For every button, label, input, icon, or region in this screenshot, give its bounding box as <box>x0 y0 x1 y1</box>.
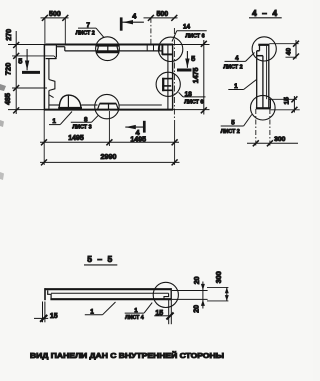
left dimension chain line <box>12 31 47 114</box>
detail circle bottom of 4-4 <box>250 95 275 120</box>
svg-text:4 – 4: 4 – 4 <box>252 8 279 18</box>
svg-text:1: 1 <box>90 308 94 315</box>
panel inner bottom line <box>49 104 162 106</box>
label 7 / sheet 2 <box>78 28 104 37</box>
svg-text:5 – 5: 5 – 5 <box>87 254 114 264</box>
detail circle 14-6 <box>158 37 182 61</box>
dimension 500 top-left <box>41 15 69 46</box>
5-5 left end face <box>44 288 46 300</box>
panel left outer edge <box>43 45 45 110</box>
svg-text:ЛИСТ 3: ЛИСТ 3 <box>72 124 91 130</box>
detail circle (5-5) <box>153 282 178 307</box>
svg-text:7: 7 <box>86 22 90 29</box>
bottom dimension line 1495+1495 <box>40 111 179 146</box>
5-5 strip inner line <box>51 292 169 294</box>
section marker 4 top <box>121 17 144 30</box>
5-5 strip top face <box>44 288 171 290</box>
5-5 right end notch <box>164 293 169 299</box>
svg-text:1495: 1495 <box>130 136 146 143</box>
section marker 5 left <box>22 49 40 72</box>
label 1 / sheet 4 (5-5) <box>125 303 153 314</box>
svg-text:1: 1 <box>52 118 56 125</box>
svg-text:ВИД ПАНЕЛИ ДАН С ВНУТРЕННЕЙ СТ: ВИД ПАНЕЛИ ДАН С ВНУТРЕННЕЙ СТОРОНЫ <box>30 351 224 360</box>
dimension 300 (4-4) <box>247 109 298 146</box>
svg-text:5: 5 <box>18 57 22 66</box>
detail circle top of 4-4 <box>252 37 276 61</box>
joint box top right <box>162 45 172 55</box>
top-left corner step profile <box>46 45 65 59</box>
label 5 / sheet 2 (4-4) <box>221 115 252 127</box>
svg-text:15: 15 <box>155 310 163 317</box>
panel right outer edge <box>172 45 174 110</box>
dimension 15 (4-4) <box>270 96 299 113</box>
dimension 20 20 (5-5) <box>201 282 205 309</box>
svg-text:270: 270 <box>6 29 13 41</box>
label 4 / sheet 2 (4-4) <box>225 53 255 62</box>
svg-text:5: 5 <box>231 119 235 126</box>
joint centerline <box>173 28 175 120</box>
5-5 left hook <box>48 290 51 299</box>
label 1 plan <box>49 112 72 125</box>
svg-text:4: 4 <box>235 55 239 62</box>
svg-text:485: 485 <box>5 93 12 105</box>
svg-text:ЛИСТ 2: ЛИСТ 2 <box>221 129 240 135</box>
lifting loop arch <box>58 95 82 108</box>
dimension 40 <box>269 40 299 60</box>
svg-text:15: 15 <box>284 97 291 105</box>
label 18 / sheet 6 <box>179 92 206 97</box>
connector bracket inside circle <box>162 78 172 91</box>
svg-text:8: 8 <box>84 116 88 123</box>
section marker 4 bottom <box>125 121 144 133</box>
section marker 5 right <box>177 51 192 70</box>
svg-text:720: 720 <box>3 63 12 76</box>
svg-text:15: 15 <box>50 313 58 320</box>
right edge extension down to dims <box>174 120 176 165</box>
scan smudge left edge <box>0 84 6 91</box>
svg-text:300: 300 <box>214 271 223 283</box>
detail circle 7-2 <box>96 37 120 61</box>
section 4-4 profile <box>256 44 271 109</box>
svg-text:500: 500 <box>49 11 61 18</box>
svg-text:20: 20 <box>194 276 201 284</box>
dimension 300 (5-5) <box>207 287 229 301</box>
panel bottom edge <box>8 109 210 111</box>
svg-text:ЛИСТ 2: ЛИСТ 2 <box>223 65 242 71</box>
svg-text:500: 500 <box>156 11 168 18</box>
scan smudge left edge 3 <box>0 172 4 180</box>
5-5 right end face <box>170 288 172 300</box>
loop recess detail (in circle 8) <box>98 104 119 110</box>
dimension 15 right (5-5) <box>154 300 173 324</box>
detail circle 18-6 <box>156 72 180 96</box>
label 14 / sheet 6 <box>172 31 207 42</box>
svg-text:4: 4 <box>132 11 137 20</box>
scan smudge left edge 2 <box>0 120 4 127</box>
svg-text:300: 300 <box>274 136 286 143</box>
left edge keyway tab <box>49 80 55 91</box>
svg-text:ЛИСТ 6: ЛИСТ 6 <box>185 34 204 40</box>
right dimension 1475 <box>201 40 207 115</box>
svg-text:40: 40 <box>285 48 292 56</box>
label 1 (4-4) <box>228 80 256 90</box>
dimension 500 top-right <box>144 15 178 45</box>
svg-text:5: 5 <box>191 54 195 63</box>
svg-text:ЛИСТ 4: ЛИСТ 4 <box>125 315 144 321</box>
panel right inner edge <box>167 45 169 110</box>
dimension 15 left (5-5) <box>34 302 48 323</box>
svg-text:20: 20 <box>194 305 201 313</box>
svg-text:1495: 1495 <box>68 135 84 142</box>
svg-text:ЛИСТ 2: ЛИСТ 2 <box>76 31 95 37</box>
joint ticks on top band <box>147 45 159 51</box>
left edge extension down to dims <box>43 110 45 165</box>
svg-text:1475: 1475 <box>193 68 200 84</box>
5-5 strip bottom face <box>50 298 171 300</box>
left edge lower step mark <box>49 95 54 98</box>
panel inner top line <box>65 50 163 52</box>
label 1 (5-5) <box>85 302 116 315</box>
label 8 / sheet 3 <box>71 115 99 122</box>
adjacent ghost lines <box>172 291 208 300</box>
panel left inner edge <box>48 59 50 109</box>
svg-text:14: 14 <box>183 24 191 31</box>
panel top edge <box>8 44 210 46</box>
extension line at y56 <box>12 56 57 59</box>
svg-text:18: 18 <box>185 91 193 98</box>
svg-text:ЛИСТ 6: ЛИСТ 6 <box>184 99 203 105</box>
weld joint detail inside circle <box>96 46 120 53</box>
svg-text:1: 1 <box>234 83 238 90</box>
detail circle 8-3 <box>95 94 119 118</box>
bottom dimension line 2990 <box>40 159 180 165</box>
svg-text:2990: 2990 <box>101 152 117 161</box>
